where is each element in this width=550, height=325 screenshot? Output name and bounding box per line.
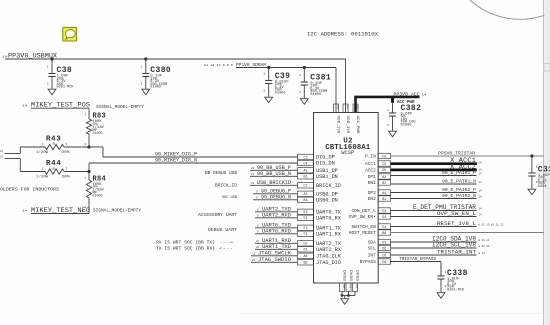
svg-text:0201-MCK: 0201-MCK [447,288,465,292]
U2 pin C5 ACC1 [365,161,391,167]
svg-text:DVSS: DVSS [354,270,358,282]
capacitor C380 [140,57,171,89]
svg-text:DVSS: DVSS [348,270,352,282]
svg-text:1: 1 [387,109,389,112]
ground C380 [142,89,150,95]
svg-text:1: 1 [42,143,44,146]
svg-text:UART2_RX: UART2_RX [316,247,342,253]
svg-text:1/20W: 1/20W [36,150,48,154]
yellow comment annotation icon [63,27,77,41]
svg-text:1: 1 [140,66,142,69]
wire UART2_RXD [255,217,298,219]
wire UART1_TXD [255,248,298,250]
wire PP3V0_USBMUX rail [5,58,346,60]
U2 pin E6 BYPASS [360,259,391,265]
wire MIKEY_TEST_POS [31,107,89,109]
wire UART2_TXD [255,211,298,213]
U2 pin D5 ACC_PWR [353,104,359,134]
svg-text:14: 14 [22,104,27,107]
wire 90_E_PAIR2_N [391,198,477,200]
U2 pin A1 USB1_DP [298,168,338,174]
U2 pin A4 DP2 [368,190,391,196]
svg-text:ACC1: ACC1 [365,161,376,167]
svg-text:0201: 0201 [538,185,547,189]
svg-text:2: 2 [66,168,68,171]
svg-text:C4: C4 [303,162,307,166]
wire 90_DEBUG_N [253,199,298,201]
wire E_DET_PMU_TRISTAR [391,210,477,212]
svg-text:8 21 14: 8 21 14 [479,245,490,248]
ground C337 [528,189,536,195]
capacitor C382 [387,96,421,131]
wire VDD_1V8 drop [335,68,337,113]
svg-text:E1: E1 [355,285,358,289]
wire 90_MIKEY_DIG_P [103,156,298,158]
svg-text:DIG_DN: DIG_DN [316,161,335,167]
svg-text:MIKEY_TEST_POS: MIKEY_TEST_POS [31,102,90,109]
wire 90_BB_USB_P [250,169,298,171]
svg-text:01005: 01005 [93,131,103,135]
wire VDD_3V0 drop [345,59,347,113]
U2 pin E1 DVSS [353,270,359,292]
U2 pin D1 UART2_RX [298,247,342,253]
svg-text:F3: F3 [336,105,339,109]
svg-text:14: 14 [422,93,427,96]
svg-text:8 21 14: 8 21 14 [479,239,490,242]
svg-text:A6: A6 [303,255,307,259]
svg-text:14: 14 [479,181,483,184]
svg-text:C2: C2 [303,185,307,189]
svg-text:2: 2 [66,143,68,146]
svg-text:D4: D4 [382,216,386,220]
wire UART6_TXD [255,227,298,229]
svg-text:21: 21 [251,167,255,170]
svg-text:B1: B1 [303,176,307,180]
svg-text:I2C ADDRESS: 0011010X: I2C ADDRESS: 0011010X [307,31,379,38]
svg-text:2: 2 [140,83,142,86]
wire MIKEY_TEST_NEG [31,213,89,215]
svg-text:14: 14 [2,56,7,59]
ground C381 [300,99,308,105]
svg-text:8 14: 8 14 [479,252,486,255]
U2 pin A5 DVSS [340,270,346,292]
wire UART1_RXD [255,242,298,244]
node C337 tap [530,154,533,157]
U2 pin F4 VDD_3V0 [343,104,349,134]
U2 pin F2 UART1_TX [298,225,342,231]
svg-text:ACCESSORY UART: ACCESSORY UART [198,212,237,218]
wire OVP_SW_EN_L [391,216,477,218]
U2 pin D3 SDA [368,239,391,245]
U2 pin C4 DIG_DN [298,160,335,166]
svg-text:14: 14 [479,172,483,175]
svg-text:UART0_RX: UART0_RX [316,215,342,221]
U2 pin B2 DN1 [368,180,391,186]
U2 pin E5 ACC2 [365,167,391,173]
svg-text:D2: D2 [303,243,307,247]
svg-text:1: 1 [263,73,265,76]
svg-text:14: 14 [479,168,483,171]
wire I2C0_SDA_1V8 [391,241,477,243]
svg-text:F6: F6 [382,155,386,159]
svg-text:VDD_3V0: VDD_3V0 [345,116,349,135]
svg-text:A1: A1 [303,170,307,174]
svg-text:E1: E1 [303,217,307,221]
svg-text:BRICK_ID: BRICK_ID [215,182,237,188]
svg-text:E2: E2 [303,211,307,215]
wire left input stub P [5,153,21,155]
svg-text:C1: C1 [349,285,352,289]
wire R44 to DIG_N row [88,163,90,172]
svg-text:B2: B2 [382,182,386,186]
svg-text:14: 14 [479,195,483,198]
svg-text:1: 1 [299,74,301,77]
svg-text:2: 2 [47,83,49,86]
wire USB_BRICKID [250,184,298,186]
svg-text:B3: B3 [303,199,307,203]
svg-text:01005: 01005 [93,193,103,197]
svg-text:A5: A5 [342,285,345,289]
svg-text:21: 21 [252,259,256,262]
svg-text:14: 14 [479,162,483,165]
U2 pin B4 DN2 [368,196,391,202]
svg-text:ACC_PWR: ACC_PWR [355,116,359,135]
svg-text:DP1: DP1 [368,174,376,180]
svg-text:D1: D1 [303,249,307,253]
U2 pin A3 USB0_DP [298,191,338,197]
svg-text:DVSS: DVSS [341,270,345,282]
svg-text:1: 1 [47,66,49,69]
svg-text:B6: B6 [382,232,386,236]
svg-text:B4: B4 [382,198,386,202]
capacitor C381 [299,66,331,98]
U2 pin B5 JTAG_DIO [298,260,341,266]
svg-text:D5: D5 [356,105,359,109]
U2 pin F3 VDD_1V8 [334,104,340,134]
svg-text:C5: C5 [382,163,386,167]
wire JTAG_SWDIO [251,261,298,263]
wire 90_MIKEY_DIG_N [89,162,298,164]
faint bottom scan line [240,312,544,314]
svg-text:21 14 13 9 6 5: 21 14 13 9 6 5 [204,64,233,67]
svg-text:C6: C6 [382,254,386,258]
svg-text:21: 21 [251,173,255,176]
svg-text:SIGNAL_MODEL-EMPTY: SIGNAL_MODEL-EMPTY [93,208,141,214]
svg-text:2: 2 [263,90,265,93]
U2 pin E4 SWITCH_EN [351,224,390,230]
svg-text:USB1_DN: USB1_DN [316,174,338,180]
svg-text:1/20W: 1/20W [36,174,48,178]
svg-text:A2: A2 [382,176,386,180]
svg-text:RX IS WRT SOC (BB TX): RX IS WRT SOC (BB TX) [156,240,215,246]
svg-text:D6: D6 [382,247,386,251]
svg-text:OVP_SW_EN•: OVP_SW_EN• [349,214,376,220]
U2 pin C6 INT [368,252,391,258]
large circle annotation arc (scan artifact) [445,0,550,19]
svg-text:<---: <--- [219,247,233,252]
wire UART6_RXD [255,233,298,235]
wire PP5V0_TRISTAR [391,155,544,157]
resistor R83 [84,108,106,147]
U2 pin E2 UART0_TX [298,209,342,215]
svg-text:14: 14 [22,210,27,213]
svg-text:DP2: DP2 [368,190,376,196]
U2 pin B3 USB0_DN [298,197,338,203]
svg-text:2: 2 [387,124,389,127]
svg-text:0201-MCK: 0201-MCK [57,86,75,90]
wire X_ACC2 bus [391,169,477,172]
wire 90_BB_USB_N [250,175,298,177]
svg-text:A4: A4 [382,192,386,196]
svg-text:HOST_RESET: HOST_RESET [349,230,376,236]
U2 pin F1 UART1_RX [298,231,342,237]
U2 pin E3 CON_DET_L [351,208,390,214]
U2 pin B6 HOST_RESET [349,230,391,236]
node R43/R83 junction [87,145,90,148]
svg-text:1: 1 [42,168,44,171]
wire PP1V8_SDRAM rail [236,67,336,69]
wire R43 to DIG_P row [89,146,103,148]
svg-text:01005: 01005 [275,91,286,95]
wire 90_E_PAIR1_P [391,175,477,177]
ground C338 [437,293,445,299]
U2 pin B1 USB1_DN [298,174,338,180]
wire DVSS [348,292,350,296]
svg-text:14: 14 [479,213,483,216]
svg-text:JTAG_CLK: JTAG_CLK [316,253,342,259]
U2 pin A2 DP1 [368,174,391,180]
resistor R84 [84,172,106,214]
svg-text:DN2: DN2 [368,196,376,202]
wire TRISTAR_INT [391,254,477,256]
svg-text:--->: ---> [219,241,234,246]
ground C39 [265,97,273,103]
svg-text:1: 1 [84,112,86,115]
wire TRISTAR_BYPASS [391,261,442,263]
svg-text:F2: F2 [303,227,307,231]
svg-text:ACC2: ACC2 [365,167,376,173]
page right edge line [543,0,545,325]
svg-text:A3: A3 [303,193,307,197]
svg-text:P_IN: P_IN [365,154,376,160]
wire left input stub N [5,158,21,160]
svg-text:E5: E5 [382,169,386,173]
wire I2C0_SCL_1V8 [391,247,477,249]
svg-text:1: 1 [84,177,86,180]
svg-text:BB DEBUG USB: BB DEBUG USB [205,170,237,176]
U2 pin C1 DVSS [346,270,352,292]
svg-text:2: 2 [84,143,86,146]
svg-text:BRICK_ID: BRICK_ID [316,183,341,189]
wire DVSS [341,292,343,296]
capacitor C338 [437,262,467,293]
svg-text:JTAG_DIO: JTAG_DIO [316,260,341,266]
svg-text:SOC USB: SOC USB [222,196,238,200]
resistor R43 [20,135,89,154]
svg-text:2: 2 [299,91,301,94]
svg-text:14: 14 [479,189,483,192]
op-amp U2 body [314,113,379,284]
svg-text:21: 21 [256,246,260,249]
svg-text:HOLDERS FOR INDUCTORS: HOLDERS FOR INDUCTORS [0,186,59,192]
svg-text:MIKEY_TEST_NEG: MIKEY_TEST_NEG [31,207,90,214]
svg-text:F4: F4 [346,105,349,109]
capacitor C38 [47,57,75,89]
svg-text:VDD_1V8: VDD_1V8 [335,116,339,135]
wire PP3V0_ACC thick bus [356,97,420,113]
svg-text:21: 21 [251,182,255,185]
wire 90_E_PAIR1_N [391,183,477,185]
ground U2 DVSS [344,296,346,299]
node DVSS junction [341,294,344,297]
wire DVSS bus [342,295,355,297]
svg-text:USB0_DN: USB0_DN [316,197,338,203]
svg-text:B5: B5 [303,262,307,266]
svg-text:01005: 01005 [310,93,321,97]
svg-text:CON_DET_L: CON_DET_L [351,208,376,214]
node R44/R84 junction [87,170,90,173]
capacitor C337 [528,156,550,189]
U2 pin C2 BRICK_ID [298,183,341,189]
wire RESET_1V8_L [391,226,477,228]
svg-text:21: 21 [0,150,4,153]
svg-text:SDA: SDA [368,240,376,246]
wire JTAG_SWCLK [251,255,298,257]
svg-text:21: 21 [0,155,4,158]
wire 90_E_PAIR2_P [391,192,477,194]
U2 pin C3 DIG_DP [298,154,335,160]
svg-text:INT: INT [368,253,376,259]
svg-text:E3: E3 [382,210,386,214]
svg-text:WCSP: WCSP [341,150,354,156]
svg-text:F1: F1 [303,233,307,237]
svg-text:14: 14 [479,207,483,210]
svg-text:SIGNAL_MODEL-EMPTY: SIGNAL_MODEL-EMPTY [96,104,144,110]
svg-text:D3: D3 [382,241,386,245]
U2 pin D6 SCL [368,245,391,251]
ground C38 [48,89,56,95]
resistor R44 [20,160,89,178]
U2 pin F6 P_IN [365,153,391,159]
wire HOST_RESET long [391,232,544,234]
svg-text:SCL: SCL [368,246,376,252]
svg-text:DN1: DN1 [368,180,376,186]
svg-text:21: 21 [256,240,260,243]
svg-text:DEBUG UART: DEBUG UART [208,227,237,233]
U2 pin D4 OVP_SW_EN [349,214,391,220]
svg-text:20%: 20% [62,150,70,154]
svg-text:E6: E6 [382,261,386,265]
wire X_ACC1 bus [391,162,477,165]
capacitor C39 [263,66,290,97]
svg-text:TX IS WRT SOC (BB RX): TX IS WRT SOC (BB RX) [156,246,215,252]
wire DVSS [354,292,356,296]
small border tick right edge [544,64,550,72]
svg-text:C3: C3 [303,156,307,160]
svg-text:SWITCH_EN: SWITCH_EN [351,224,376,230]
U2 pin E1 UART0_RX [298,215,342,221]
svg-text:01005: 01005 [150,86,161,90]
svg-text:E4: E4 [382,226,386,230]
ground C382 [389,131,397,137]
svg-text:8 12 13 16 21 22: 8 12 13 16 21 22 [479,223,504,226]
svg-text:UART1_RX: UART1_RX [316,231,342,237]
svg-text:21: 21 [252,252,256,255]
svg-text:BYPASS: BYPASS [360,259,377,265]
wire 90_DEBUG_P [253,193,298,195]
svg-text:20%: 20% [62,174,70,178]
U2 pin A6 JTAG_CLK [298,253,342,259]
svg-text:01005: 01005 [401,123,412,127]
U2 pin D2 UART2_TX [298,241,342,247]
